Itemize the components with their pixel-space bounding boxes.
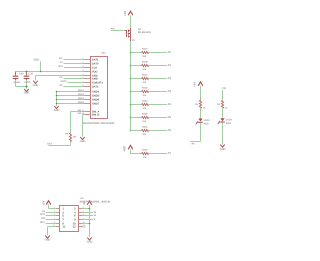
wire bus to R21A <box>131 52 142 54</box>
svg-text:DAT3: DAT3 <box>61 80 68 83</box>
wire R21A to net P0 <box>149 52 168 54</box>
svg-text:VDD: VDD <box>92 71 98 74</box>
wire bus to R21C <box>131 78 142 80</box>
wire U5 right row 0 <box>82 212 93 214</box>
junction drain bus at R22A <box>130 104 132 106</box>
svg-text:R21D: R21D <box>142 87 148 90</box>
wire R22D to net P7 <box>149 153 168 155</box>
wire shield pin 9 <box>57 91 85 93</box>
resistor R1 <box>195 100 206 109</box>
wire U5 right row 2 <box>82 219 93 221</box>
wire net CS U5 left <box>46 212 56 214</box>
wire R2 to LED2 <box>222 108 224 118</box>
svg-text:R22A: R22A <box>142 100 148 103</box>
svg-text:C30: C30 <box>28 73 33 76</box>
svg-text:DO: DO <box>59 57 63 60</box>
ground for shield pins <box>54 106 60 112</box>
power flag +5V at R1 <box>193 82 203 87</box>
wire LED1 to net P8 <box>191 123 201 142</box>
wire R21C to net P2 <box>149 78 168 80</box>
svg-text:GND5: GND5 <box>92 95 100 98</box>
resistor R21C <box>142 74 149 84</box>
svg-text:GND: GND <box>80 140 86 143</box>
svg-text:GND7: GND7 <box>92 103 100 106</box>
svg-text:+5V: +5V <box>123 11 127 16</box>
svg-text:VD: VD <box>132 39 136 42</box>
junction shield bus 11 <box>56 99 58 101</box>
IC U5 expander box <box>60 206 79 232</box>
U$1 pin numbers <box>77 57 84 115</box>
svg-text:GND4: GND4 <box>92 91 100 94</box>
svg-text:R21C: R21C <box>142 74 148 77</box>
svg-text:DAT0: DAT0 <box>92 63 99 66</box>
svg-text:GND: GND <box>220 148 226 151</box>
U$1 pin names <box>92 59 104 117</box>
svg-text:SDO: SDO <box>40 221 45 224</box>
wire net D2 to U$1 <box>64 86 85 88</box>
svg-text:GND6: GND6 <box>92 99 100 102</box>
junction shield bus 9 <box>56 91 58 93</box>
wire bus to R21D <box>131 91 142 93</box>
resistor R21D <box>142 87 149 97</box>
wire bus to R22A <box>131 104 142 106</box>
wire U5 pin 11 to ground <box>48 227 56 236</box>
svg-text:SCK: SCK <box>40 213 45 216</box>
wire LED2 to ground <box>222 122 224 144</box>
ground below LED2 <box>220 145 226 152</box>
svg-text:CMD: CMD <box>92 78 98 81</box>
svg-text:+5V: +5V <box>193 82 197 87</box>
wire net DO to U$1 <box>64 59 85 61</box>
svg-text:DAT1: DAT1 <box>92 59 99 62</box>
svg-text:GND: GND <box>45 239 51 242</box>
wire bus to R22C <box>131 130 142 132</box>
junction shield bus 10 <box>56 95 58 97</box>
wire R22C to net P6 <box>149 130 168 132</box>
ground at SW_B <box>80 137 86 143</box>
svg-text:VDD: VDD <box>33 57 39 61</box>
wire SW_A to R5 <box>71 112 85 133</box>
resistor R21A <box>142 48 149 58</box>
wire C40 bottom to C30 bottom <box>16 86 27 88</box>
wire shield pin 11 <box>57 99 85 101</box>
LED LED2 <box>218 118 233 125</box>
wire net SDO U5 left <box>46 223 56 225</box>
svg-text:MICROSD-HINGED: MICROSD-HINGED <box>83 122 115 125</box>
wire net SDI U5 left <box>46 219 56 221</box>
svg-text:GND: GND <box>24 92 30 95</box>
ground right of U5 <box>87 237 93 243</box>
resistor R22B <box>142 113 149 123</box>
wire GND net to U$1 GND pin <box>36 75 85 77</box>
resistor R21B <box>142 61 149 71</box>
power flag right of U5 <box>83 201 92 206</box>
svg-text:IRLML6203: IRLML6203 <box>138 31 151 34</box>
junction on VDD bus at VDD flag <box>40 71 42 73</box>
junction right bus pin 2 <box>89 208 91 210</box>
wire R22B to net P5 <box>149 117 168 119</box>
wire net SCK U5 left <box>46 215 56 217</box>
junction drain bus at R22C <box>130 130 132 132</box>
svg-text:RED: RED <box>204 122 209 125</box>
svg-text:C40: C40 <box>19 73 24 76</box>
svg-text:CS: CS <box>59 76 63 79</box>
wire SW_B to ground <box>83 115 85 137</box>
ground at U$1 GND pin <box>33 81 39 88</box>
wire shield pin 10 <box>57 95 85 97</box>
wire +5V to Q1 source <box>130 15 132 28</box>
svg-text:U$1: U$1 <box>101 52 106 55</box>
svg-text:4.7uF: 4.7uF <box>24 81 31 84</box>
wire net CS to U$1 <box>64 78 85 80</box>
transistor Q1 <box>125 28 152 42</box>
wire Q1 drain bus <box>130 42 132 131</box>
LED LED1 <box>196 119 211 126</box>
svg-text:SCK: SCK <box>58 65 63 68</box>
junction at cap ground node <box>25 85 27 87</box>
wire VDD bus to U1 VDD pin <box>16 71 85 73</box>
power flag VDD <box>33 57 40 71</box>
ground below capacitors <box>24 89 30 95</box>
svg-text:DET: DET <box>47 143 52 146</box>
microSD socket U$1 <box>91 57 108 119</box>
svg-text:DI: DI <box>60 61 63 64</box>
svg-text:R21A: R21A <box>142 48 148 51</box>
svg-text:GRN: GRN <box>226 122 231 125</box>
wire net SCK to U$1 <box>64 67 84 69</box>
wire R5 bottom to DET label <box>49 142 71 146</box>
junction shield bus 12 <box>56 103 58 105</box>
resistor R5 <box>65 132 77 141</box>
wire U5 right row 1 <box>82 215 93 217</box>
svg-text:GND: GND <box>87 241 93 244</box>
wire right power bus of U5 <box>82 205 89 237</box>
svg-text:GND: GND <box>54 109 60 112</box>
svg-text:+5V: +5V <box>41 201 45 206</box>
resistor R2 <box>217 100 228 109</box>
resistor R22A <box>142 100 149 110</box>
svg-text:SW_B: SW_B <box>92 114 100 117</box>
svg-text:CS: CS <box>42 210 46 213</box>
junction drain bus at R21A <box>130 52 132 54</box>
wire +5V to U5 pin 1 <box>49 205 56 209</box>
ground left of U5 <box>45 236 51 242</box>
power flag +5V at Q1 source <box>123 11 133 16</box>
svg-text:R22B: R22B <box>142 113 148 116</box>
wire net DI to U$1 <box>64 63 85 65</box>
junction drain bus at R22B <box>130 117 132 119</box>
wire gate net to Q1 <box>111 30 125 32</box>
wire bus to R22B <box>131 117 142 119</box>
resistor R22C <box>142 126 149 136</box>
wire R22A to net P4 <box>149 104 168 106</box>
svg-text:0.1uF: 0.1uF <box>14 81 21 84</box>
wire GND drop below pin 5 <box>35 76 37 81</box>
junction drain bus at R21C <box>130 78 132 80</box>
svg-text:R21B: R21B <box>142 61 148 64</box>
wire VIO to R2 <box>222 90 224 101</box>
U5 pin stubs <box>56 209 83 227</box>
capacitor C40 <box>13 72 24 87</box>
svg-text:DAT2: DAT2 <box>92 86 99 89</box>
svg-text:CD/DAT3: CD/DAT3 <box>92 82 104 85</box>
wire R1 to LED1 <box>200 108 202 118</box>
wire net DAT3 to U$1 <box>68 82 85 84</box>
capacitor C30 <box>24 72 34 89</box>
wire shield pins bus vertical <box>56 92 58 106</box>
svg-text:R22D: R22D <box>142 149 148 152</box>
svg-text:GND: GND <box>33 84 39 87</box>
svg-text:SDI: SDI <box>41 217 45 220</box>
power flag +5V at R22D <box>122 145 132 152</box>
resistor R22D <box>142 149 149 160</box>
svg-text:VIO: VIO <box>222 87 226 90</box>
svg-text:LED1: LED1 <box>204 119 211 122</box>
wire +5V flag to R22D <box>131 149 142 153</box>
junction drain bus at R21B <box>130 65 132 67</box>
U5 pin numbers <box>62 208 76 229</box>
junction on VDD bus at C30 <box>25 70 27 72</box>
U$1 pin stubs <box>84 60 91 115</box>
junction right bus pin 10 <box>89 223 91 225</box>
svg-text:VCC: VCC <box>81 225 86 228</box>
U5 pin number marks <box>53 206 84 227</box>
svg-text:+5V: +5V <box>122 145 126 152</box>
svg-text:11: 11 <box>62 226 65 229</box>
svg-text:CLK: CLK <box>92 67 97 70</box>
svg-text:+5V: +5V <box>83 201 86 206</box>
svg-text:12: 12 <box>73 226 76 229</box>
svg-text:LED2: LED2 <box>226 119 233 122</box>
svg-text:R22C: R22C <box>142 126 148 129</box>
wire shield pin 12 <box>57 103 85 105</box>
power flag +5V left of U5 <box>41 201 50 206</box>
junction drain bus at R21D <box>130 91 132 93</box>
wire R21B to net P1 <box>149 65 168 67</box>
wire bus to R21B <box>131 65 142 67</box>
wire +5V to R1 <box>200 86 202 101</box>
wire R21D to net P3 <box>149 91 168 93</box>
